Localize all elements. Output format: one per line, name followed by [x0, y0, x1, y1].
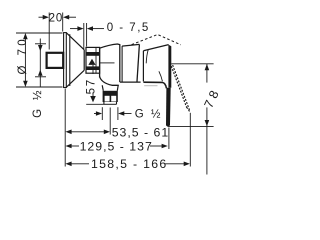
outlet neck left — [102, 85, 103, 91]
row2 left arrow — [65, 144, 71, 149]
escutcheon cone bottom edge — [66, 70, 84, 87]
dim 57 top arrow — [88, 59, 95, 65]
body block2 top edge — [122, 44, 139, 46]
svg-text:Ø 70: Ø 70 — [17, 36, 29, 75]
row3 right arrow — [184, 162, 190, 167]
dim G half outlet ext left — [101, 107, 103, 120]
row3 left arrow — [65, 162, 71, 167]
dim 78 bottom arrow — [205, 120, 210, 126]
centerline reference right — [171, 63, 213, 65]
dim 0-7,5 left arrow — [70, 26, 84, 31]
cartridge cover left edge — [142, 51, 144, 82]
row3 dim line right — [165, 163, 185, 165]
centerline segment at body — [99, 62, 115, 64]
dim dia70 bottom arrow — [23, 81, 28, 87]
stub dim leader line — [39, 39, 41, 87]
dim G half right arrow — [118, 111, 131, 116]
svg-text:158,5 - 166: 158,5 - 166 — [91, 157, 168, 171]
dim G half outlet ext right — [117, 107, 119, 120]
body block2 right edge — [137, 44, 139, 81]
lever handle (down position) — [166, 88, 171, 127]
pipe stub — [47, 53, 64, 68]
body block2 bottom edge — [120, 81, 141, 83]
row3 right ext line — [189, 113, 191, 167]
escutcheon rim — [64, 33, 67, 88]
svg-text:129,5 - 137: 129,5 - 137 — [80, 139, 153, 153]
dim 57 bottom arrow — [90, 96, 96, 102]
dim 20 left arrow — [39, 15, 49, 20]
row3 dim line left — [70, 163, 89, 165]
dashed raised lever outline — [132, 35, 181, 45]
lever tip reference line — [168, 125, 214, 127]
union nut inner vertical — [95, 47, 97, 73]
row2 dim line left — [70, 145, 79, 147]
body bottom curve — [100, 77, 119, 86]
union nut band 2 — [86, 66, 99, 70]
dim 78 line lower — [206, 107, 208, 126]
row2 right arrow — [162, 144, 168, 149]
row2 right ext line — [168, 128, 170, 150]
svg-text:57: 57 — [86, 78, 98, 94]
svg-text:0 - 7,5: 0 - 7,5 — [107, 22, 150, 34]
stub dim tick bottom — [35, 76, 46, 78]
dim 0-7,5 ext line left — [83, 23, 85, 49]
cartridge cover shadow line — [144, 85, 157, 87]
body block2 left edge — [121, 46, 123, 82]
row1 left arrow — [65, 130, 71, 135]
escutcheon inner ring line — [69, 34, 71, 86]
dim 57 bottom ext line — [86, 103, 104, 105]
outlet neck right — [116, 85, 119, 91]
dim dia70 top arrow — [23, 33, 28, 39]
row1 dim line — [70, 131, 106, 133]
wall extension line — [64, 89, 66, 167]
dim 0-7,5 right arrow — [87, 26, 104, 31]
outlet bottom edge — [104, 103, 117, 105]
dim 78 line continuation — [206, 126, 208, 174]
dim 20 ext line right — [62, 13, 64, 32]
dotted lever tip — [187, 108, 190, 113]
row1 right arrow — [104, 130, 110, 135]
body cylinder — [100, 44, 120, 82]
dim 57 line upper — [92, 65, 94, 74]
stub dim upper arrow — [38, 45, 43, 51]
cartridge cover front crease — [146, 50, 148, 64]
outlet skirt left edge — [103, 102, 105, 104]
dim 20 ext line left — [48, 13, 50, 50]
cartridge cover bottom edge — [143, 82, 166, 88]
svg-text:G ½: G ½ — [32, 88, 44, 118]
outlet centerline — [109, 108, 111, 135]
cartridge cover top edge — [143, 45, 168, 51]
outlet skirt right edge — [116, 102, 118, 104]
svg-text:G ½: G ½ — [135, 108, 163, 120]
escutcheon cone top edge — [66, 33, 84, 50]
dim dia70 ext line top — [16, 32, 63, 34]
dotted raised lever edge A — [170, 64, 186, 108]
outlet thread block — [103, 91, 118, 102]
dim 20 right arrow — [63, 15, 76, 20]
outlet thread window left — [105, 96, 110, 102]
cartridge cover inner crease — [159, 71, 163, 81]
dim 78 line upper — [206, 64, 208, 83]
svg-text:53,5 - 61: 53,5 - 61 — [112, 126, 170, 140]
stub dim lower arrow — [38, 70, 43, 76]
dim 57 line lower — [92, 93, 94, 98]
outlet thread window right — [111, 96, 116, 102]
dim 78 top arrow — [205, 64, 210, 70]
stub dim tick top — [35, 43, 46, 45]
dim dia70 dim line — [24, 39, 26, 82]
dim G half left arrow — [94, 111, 102, 116]
cartridge cover right edge (dark) — [168, 45, 171, 88]
escutcheon cone right edge — [83, 50, 85, 71]
union nut outline — [86, 47, 100, 73]
dim dia70 ext line bottom — [16, 86, 63, 88]
dotted raised lever edge B — [173, 66, 190, 110]
row2 dim line right — [150, 145, 164, 147]
union nut band 1 — [86, 52, 99, 56]
dim 0-7,5 ext line right — [86, 23, 88, 47]
svg-text:20: 20 — [49, 13, 64, 25]
